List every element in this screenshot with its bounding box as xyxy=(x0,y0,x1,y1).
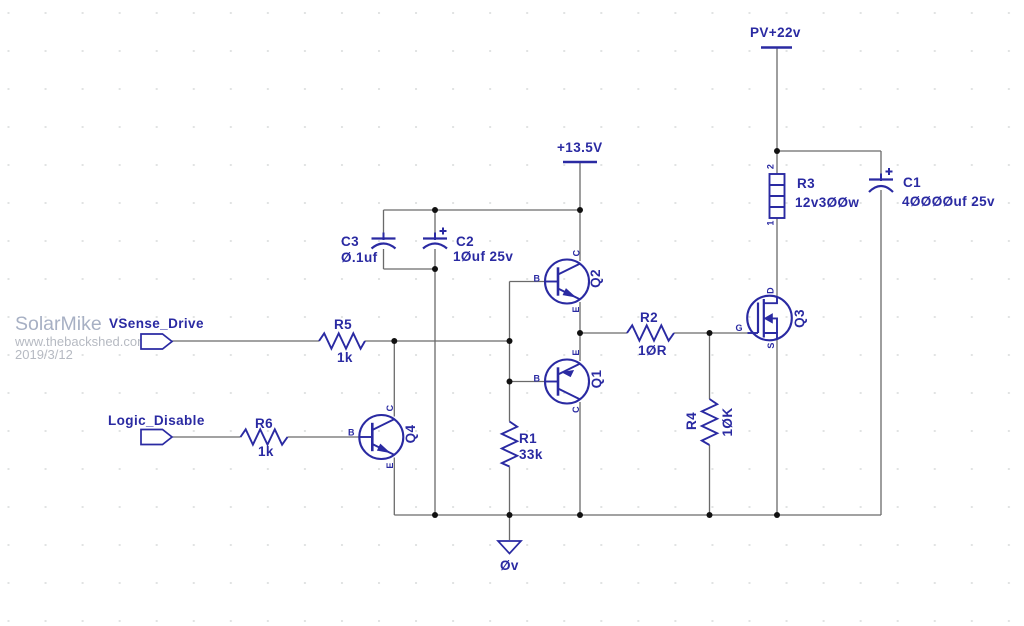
wire R6 to Q4 base xyxy=(288,436,361,438)
wire R3 top lead xyxy=(776,151,778,174)
wire C3 top lead xyxy=(383,210,385,235)
wire R4 bottom to rail xyxy=(709,445,711,515)
wire node A to Q4 collector xyxy=(393,341,395,417)
wire Q1 emitter to mid node xyxy=(579,333,581,361)
svg-text:C: C xyxy=(385,404,395,411)
junction C2 bottom xyxy=(432,266,438,272)
junction rail ground xyxy=(507,512,513,518)
wire base bus vertical upper xyxy=(509,282,511,422)
wire C2 node to ground rail xyxy=(434,269,436,515)
wire bus to Q2 base xyxy=(510,281,547,283)
svg-text:C2: C2 xyxy=(456,234,474,249)
junction C2 top xyxy=(432,207,438,213)
svg-text:PV+22v: PV+22v xyxy=(750,25,801,40)
junction gate node xyxy=(707,330,713,336)
wire C1 top lead xyxy=(880,151,882,176)
wire gate node to R4 top xyxy=(709,333,711,399)
svg-text:Q4: Q4 xyxy=(403,425,418,444)
power rail +13.5V xyxy=(563,161,597,164)
resistor R5 xyxy=(319,333,365,348)
mosfet Q3 xyxy=(747,296,792,341)
svg-text:R6: R6 xyxy=(255,416,273,431)
wire R1 bottom to rail xyxy=(509,467,511,516)
junction Q1 base xyxy=(507,379,513,385)
svg-text:2019/3/12: 2019/3/12 xyxy=(15,347,73,362)
wire ground stub xyxy=(509,515,511,540)
wire mid node to R2 xyxy=(580,332,627,334)
svg-text:Logic_Disable: Logic_Disable xyxy=(108,413,205,428)
wire R5 to node A xyxy=(365,340,394,342)
wire C2 bottom lead xyxy=(434,249,436,269)
wire node A to base bus xyxy=(394,340,509,342)
resistor R3 body xyxy=(770,174,785,218)
junction node R3/C1 xyxy=(774,148,780,154)
svg-text:R2: R2 xyxy=(640,310,658,325)
junction rail C2 xyxy=(432,512,438,518)
svg-text:R4: R4 xyxy=(684,412,699,430)
wire ground rail xyxy=(394,514,881,516)
svg-text:B: B xyxy=(534,374,541,384)
svg-text:2: 2 xyxy=(766,164,776,169)
wire C3 to C2 bottom bus xyxy=(384,268,436,270)
capacitor C3 xyxy=(372,233,396,249)
capacitor C1 xyxy=(869,168,893,192)
svg-text:Q2: Q2 xyxy=(588,269,603,288)
svg-text:1Øuf 25v: 1Øuf 25v xyxy=(453,249,513,264)
resistor R2 xyxy=(627,325,674,340)
svg-text:4ØØØØuf 25v: 4ØØØØuf 25v xyxy=(902,194,995,209)
junction node +13.5V bus xyxy=(577,207,583,213)
svg-text:R1: R1 xyxy=(519,431,537,446)
junction node A xyxy=(391,338,397,344)
wire C2 top lead xyxy=(434,210,436,235)
svg-text:C1: C1 xyxy=(903,175,921,190)
wire R3 bottom to Q3 drain xyxy=(776,218,778,297)
svg-text:B: B xyxy=(348,428,355,438)
resistor R4 xyxy=(702,399,717,445)
svg-text:1k: 1k xyxy=(258,444,274,459)
svg-text:C: C xyxy=(571,406,581,413)
svg-text:1ØK: 1ØK xyxy=(720,408,735,437)
svg-text:G: G xyxy=(736,323,743,333)
transistor Q1 PNP xyxy=(545,360,589,404)
wire Q4 emitter to rail xyxy=(393,458,395,516)
wire Q2 emitter to mid node xyxy=(579,302,581,333)
wire VSense connector to R5 xyxy=(172,340,319,342)
svg-text:C3: C3 xyxy=(341,234,359,249)
svg-text:Ø.1uf: Ø.1uf xyxy=(341,250,378,265)
resistor R6 xyxy=(241,429,288,444)
svg-text:Q3: Q3 xyxy=(792,309,807,328)
resistor R1 xyxy=(502,422,517,467)
svg-text:+13.5V: +13.5V xyxy=(557,140,603,155)
connector flag Logic_Disable xyxy=(141,430,172,445)
connector flag VSense_Drive xyxy=(141,334,172,349)
svg-text:R5: R5 xyxy=(334,317,352,332)
svg-text:S: S xyxy=(766,342,776,348)
wire C1 bottom lead to rail xyxy=(880,190,882,515)
transistor Q4 NPN xyxy=(359,415,403,459)
wire Q2 collector up xyxy=(579,210,581,261)
wire +13.5V rail down xyxy=(579,162,581,210)
wire Q3 source to rail xyxy=(776,339,778,515)
wire C3 bottom lead xyxy=(383,249,385,269)
svg-text:1: 1 xyxy=(766,220,776,225)
junction driver mid node xyxy=(577,330,583,336)
wire R2 to gate node xyxy=(674,332,748,334)
svg-text:E: E xyxy=(385,462,395,468)
wire bus to Q1 base xyxy=(510,381,547,383)
transistor Q2 NPN xyxy=(545,260,589,304)
svg-text:Q1: Q1 xyxy=(589,370,604,389)
svg-text:R3: R3 xyxy=(797,176,815,191)
svg-text:B: B xyxy=(534,274,541,284)
svg-text:SolarMike: SolarMike xyxy=(15,313,102,335)
junction base bus VSense xyxy=(507,338,513,344)
svg-text:E: E xyxy=(571,306,581,312)
junction rail Q3 xyxy=(774,512,780,518)
power rail PV+22v xyxy=(761,46,792,49)
junction rail Q1 xyxy=(577,512,583,518)
svg-text:12v3ØØw: 12v3ØØw xyxy=(795,195,859,210)
wire Logic connector to R6 xyxy=(172,436,241,438)
ground symbol 0v xyxy=(498,541,521,554)
wire Q1 collector to rail xyxy=(579,402,581,515)
svg-text:1ØR: 1ØR xyxy=(638,343,667,358)
svg-text:E: E xyxy=(571,349,581,355)
svg-text:VSense_Drive: VSense_Drive xyxy=(109,316,204,331)
wire top bus C3 to +13.5V node xyxy=(384,209,581,211)
wire PV+22v rail to R3 node xyxy=(776,48,778,151)
junction rail R4 xyxy=(707,512,713,518)
capacitor C2 xyxy=(423,228,447,249)
svg-text:33k: 33k xyxy=(519,447,543,462)
svg-text:D: D xyxy=(766,287,776,294)
svg-text:C: C xyxy=(572,249,582,256)
svg-text:Øv: Øv xyxy=(500,558,519,573)
wire R3 node to C1 top xyxy=(777,150,881,152)
svg-text:1k: 1k xyxy=(337,350,353,365)
